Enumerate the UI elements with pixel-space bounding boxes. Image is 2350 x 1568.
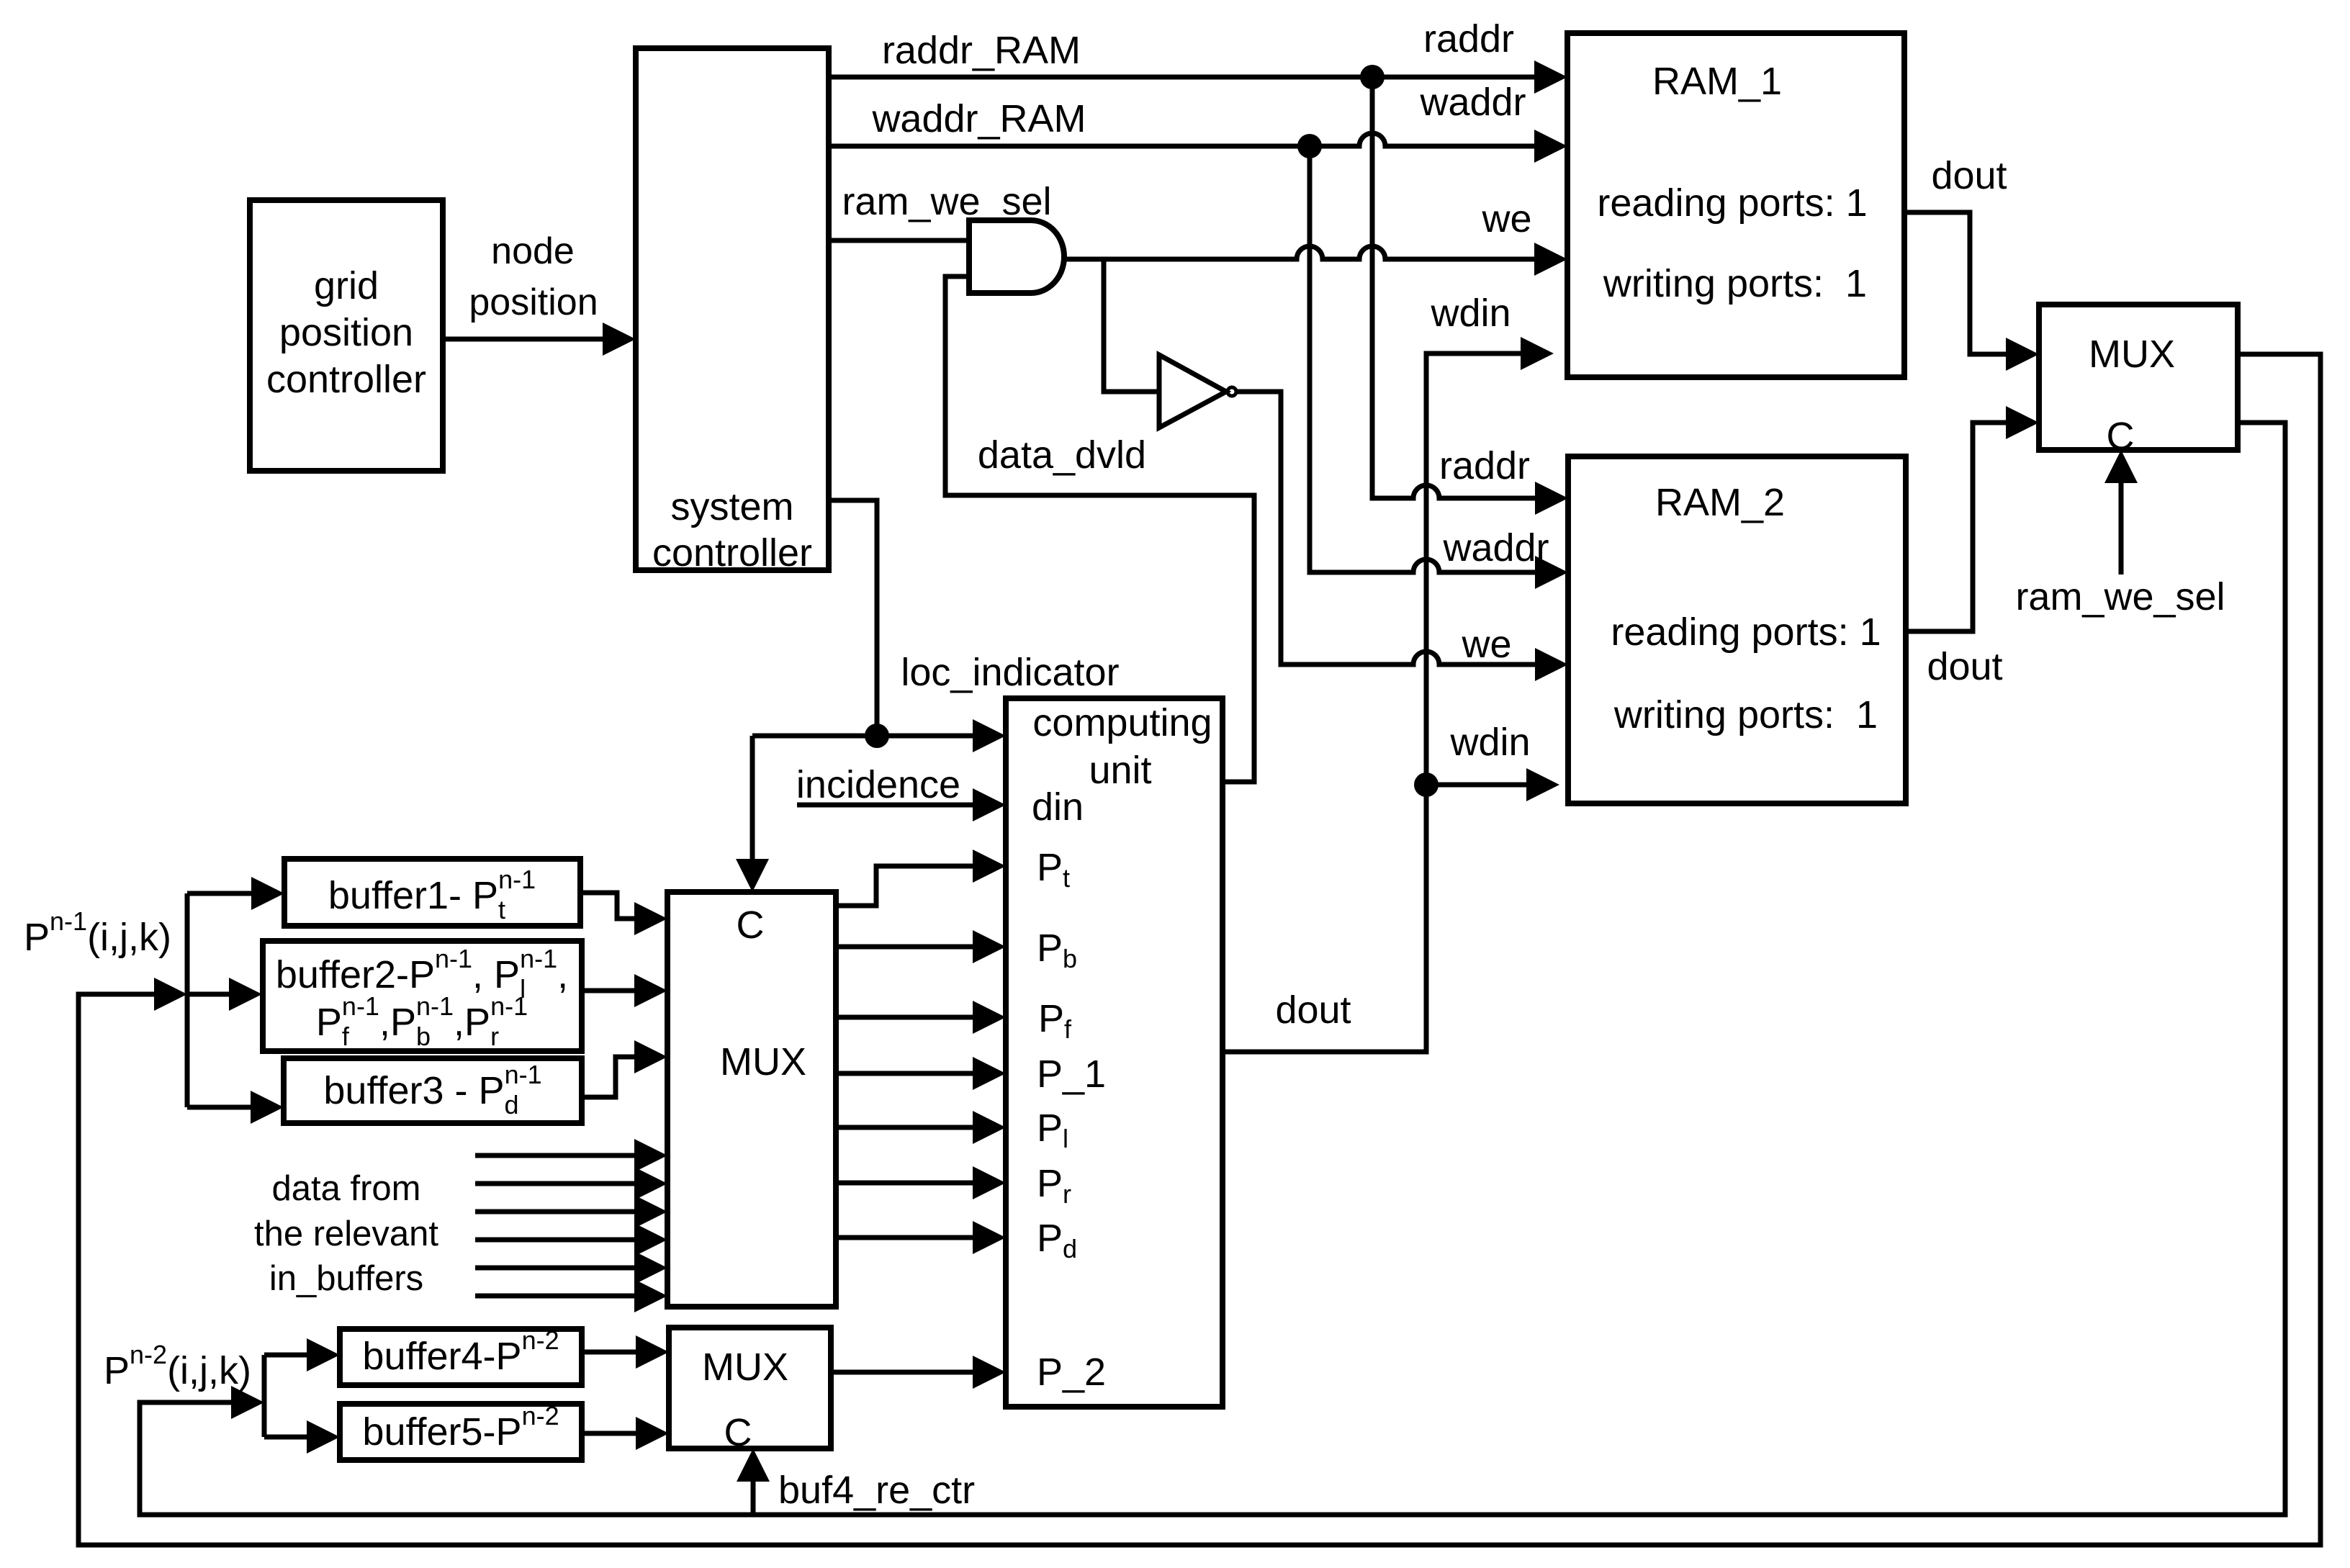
svg-text:raddr: raddr <box>1423 17 1514 60</box>
svg-text:C: C <box>724 1411 752 1454</box>
svg-text:wdin: wdin <box>1449 721 1530 764</box>
svg-text:buffer1- Ptn-1​: buffer1- Ptn-1​ <box>328 865 536 924</box>
svg-text:node: node <box>491 230 575 272</box>
svg-text:controller: controller <box>266 358 426 401</box>
svg-text:dout: dout <box>1931 154 2007 197</box>
svg-text:raddr: raddr <box>1439 444 1530 487</box>
svg-text:incidence: incidence <box>796 763 960 806</box>
svg-text:reading ports: 1: reading ports: 1 <box>1611 610 1881 654</box>
svg-text:in_buffers: in_buffers <box>269 1259 423 1298</box>
svg-text:raddr_RAM: raddr_RAM <box>882 29 1081 72</box>
svg-text:buf4_re_ctr: buf4_re_ctr <box>778 1469 975 1512</box>
svg-text:ram_we_sel: ram_we_sel <box>842 180 1051 223</box>
svg-text:unit: unit <box>1089 749 1151 792</box>
svg-text:waddr: waddr <box>1419 81 1526 124</box>
svg-text:P_2: P_2 <box>1037 1351 1106 1394</box>
svg-text:waddr: waddr <box>1442 526 1549 569</box>
svg-text:computing: computing <box>1032 701 1212 744</box>
svg-text:we: we <box>1481 197 1531 240</box>
svg-text:data_dvld: data_dvld <box>978 433 1146 477</box>
svg-text:writing ports: 1: writing ports: 1 <box>1603 262 1867 305</box>
svg-text:system: system <box>670 485 793 528</box>
svg-text:MUX: MUX <box>2089 333 2175 376</box>
svg-text:controller: controller <box>652 531 812 575</box>
svg-text:RAM_2: RAM_2 <box>1655 481 1785 524</box>
svg-text:reading ports: 1: reading ports: 1 <box>1597 181 1867 225</box>
svg-text:position: position <box>279 311 413 354</box>
svg-text:ram_we_sel: ram_we_sel <box>2015 575 2225 618</box>
svg-text:P_1: P_1 <box>1037 1053 1106 1096</box>
svg-text:Pfn-1​,Pbn-1​,Prn-1​: Pfn-1​,Pbn-1​,Prn-1​ <box>316 991 528 1051</box>
svg-text:buffer3 - Pdn-1​: buffer3 - Pdn-1​ <box>323 1060 541 1119</box>
svg-text:dout: dout <box>1275 988 1351 1032</box>
svg-text:RAM_1: RAM_1 <box>1652 60 1782 103</box>
svg-text:loc_indicator: loc_indicator <box>901 651 1119 694</box>
svg-text:position: position <box>469 281 598 323</box>
svg-text:writing ports: 1: writing ports: 1 <box>1613 693 1878 736</box>
svg-text:dout: dout <box>1927 645 2002 688</box>
svg-text:data from: data from <box>272 1169 421 1208</box>
svg-text:MUX: MUX <box>720 1040 806 1083</box>
svg-text:waddr_RAM: waddr_RAM <box>871 97 1086 140</box>
svg-text:the relevant: the relevant <box>254 1215 438 1253</box>
svg-text:din: din <box>1032 785 1084 829</box>
svg-text:MUX: MUX <box>702 1346 788 1389</box>
svg-text:C: C <box>737 904 765 947</box>
svg-text:wdin: wdin <box>1430 292 1511 335</box>
svg-text:we: we <box>1461 623 1511 666</box>
svg-text:C: C <box>2107 415 2135 458</box>
svg-text:grid: grid <box>314 264 379 307</box>
